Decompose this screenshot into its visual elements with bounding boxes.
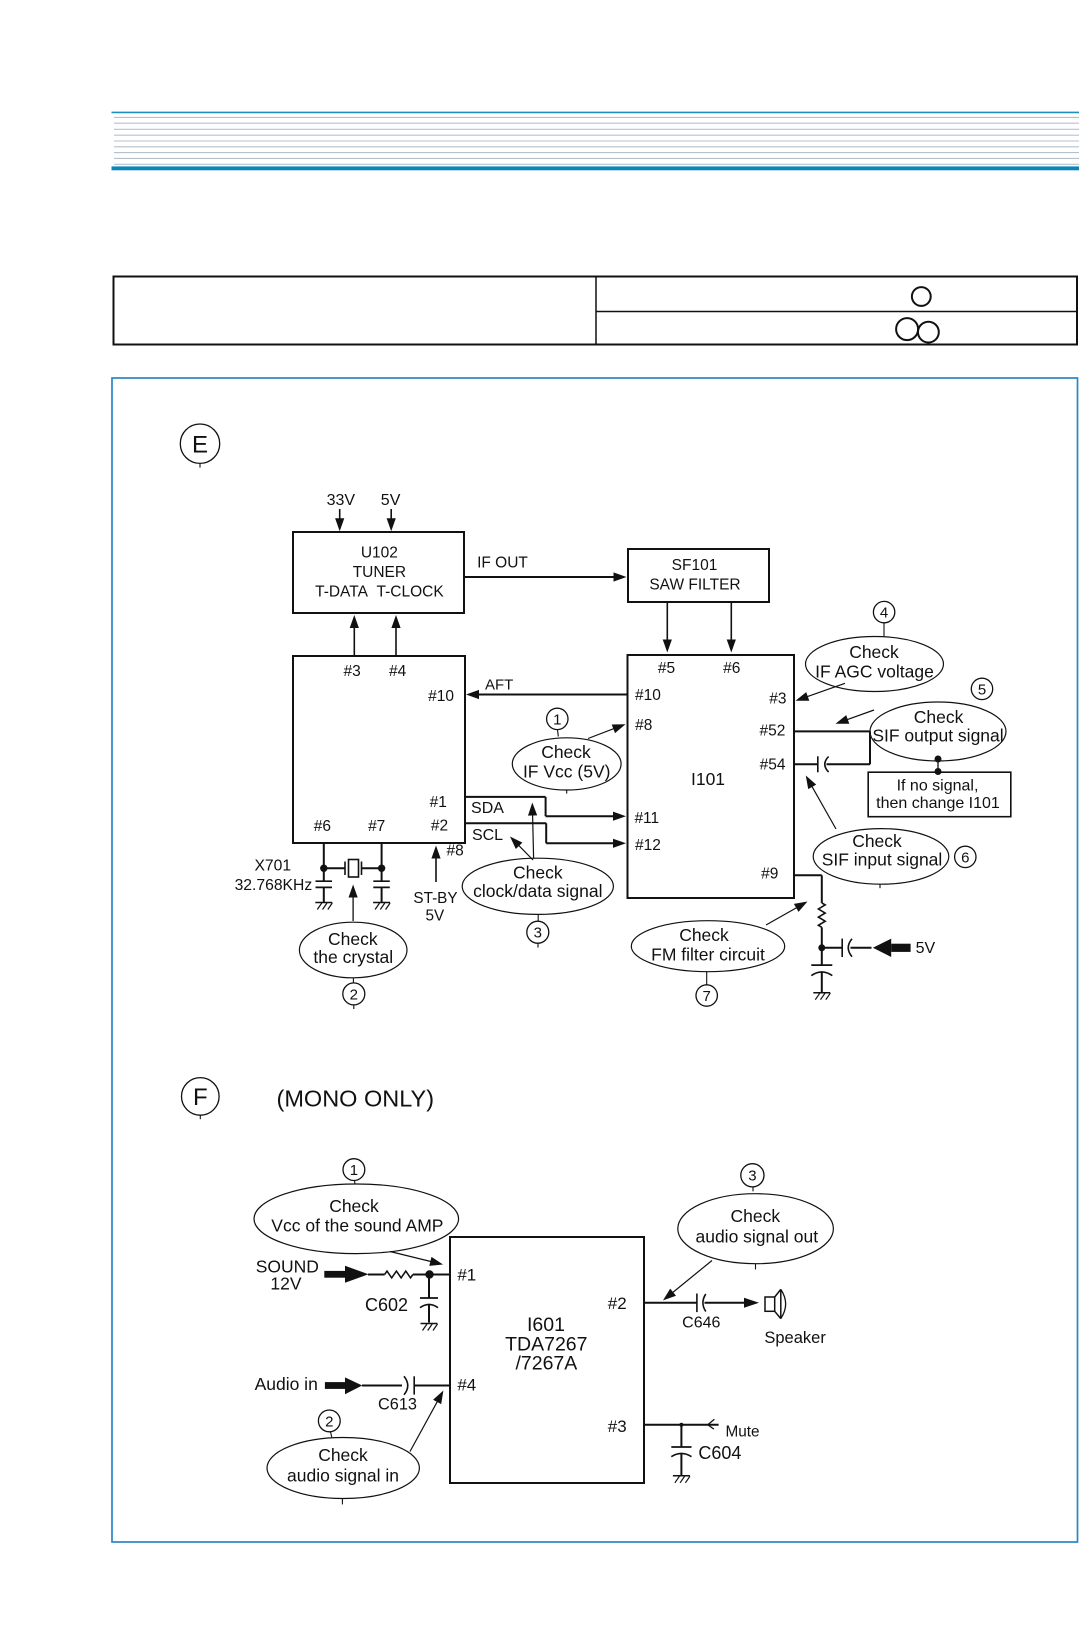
ellipse check IF AGC — [806, 637, 944, 692]
ellipse check IF Vcc — [512, 738, 621, 794]
pin #1 I601 — [457, 1265, 476, 1284]
pin #11 I101 — [634, 810, 659, 827]
callout 4 — [873, 601, 894, 622]
ellipse check FM filter — [631, 921, 784, 972]
wire pin2 to C646 — [644, 1302, 697, 1304]
pin #2 I601 — [608, 1294, 627, 1313]
pin #6 micom — [314, 818, 331, 835]
net label SDA — [471, 800, 504, 817]
node 5V tuner — [381, 492, 401, 509]
arrow to pin1 wire — [390, 1252, 443, 1266]
ellipse check SIF output — [870, 702, 1006, 761]
ellipse check audio signal in — [267, 1438, 419, 1505]
wire resistor to node — [821, 927, 823, 948]
svg-text:If no signal,: If no signal, — [897, 778, 979, 795]
callout 3F — [741, 1164, 764, 1187]
svg-text:#52: #52 — [759, 723, 785, 740]
net label SOUND 12V — [256, 1257, 319, 1294]
ellipse check SIF input — [813, 829, 949, 889]
label C613 — [378, 1396, 417, 1414]
signal arrow audio in — [325, 1377, 362, 1394]
label Speaker — [764, 1329, 826, 1347]
svg-text:IF OUT: IF OUT — [477, 555, 528, 572]
ground C604 — [673, 1476, 690, 1483]
junction dot right — [378, 865, 385, 872]
ground FM filter — [813, 993, 830, 1000]
svg-text:SDA: SDA — [471, 800, 504, 817]
junction dot C602 — [425, 1270, 433, 1278]
speaker — [765, 1289, 786, 1318]
capacitor to ground — [811, 948, 832, 993]
leader callout3 — [537, 915, 539, 922]
pin #54 I101 — [760, 757, 786, 774]
note box if no signal — [868, 772, 1011, 817]
svg-text:Check: Check — [730, 1206, 780, 1226]
net label ST-BY 5V — [413, 890, 457, 924]
capacitor left of crystal — [316, 868, 333, 902]
callout 3 — [527, 921, 549, 943]
svg-text:the crystal: the crystal — [313, 947, 393, 967]
wire pin3 mute — [644, 1424, 719, 1426]
pin #7 micom — [368, 818, 385, 835]
pin #12 I101 — [635, 837, 661, 854]
capacitor to 5V — [824, 939, 872, 957]
svg-text:Check: Check — [318, 1445, 368, 1465]
svg-text:AFT: AFT — [485, 677, 513, 694]
node 33V — [327, 492, 356, 509]
pin #2 micom — [431, 818, 448, 835]
leader callout3F — [752, 1187, 754, 1191]
wire 33V supply arrow — [335, 509, 344, 531]
resistor FM filter — [818, 903, 825, 927]
net label Audio in — [255, 1374, 318, 1394]
label 32.768KHz — [235, 877, 313, 894]
wire SCL — [465, 823, 626, 848]
svg-text:Check: Check — [914, 707, 964, 727]
pin #8 I101 — [635, 717, 652, 734]
junction dot left — [320, 865, 327, 872]
tuner U102 — [293, 532, 464, 613]
svg-text:5: 5 — [978, 681, 986, 698]
arrow to pin3 I101 — [796, 683, 846, 701]
capacitor C646 — [697, 1294, 706, 1313]
svg-text:TUNER: TUNER — [353, 564, 406, 581]
net label 5V — [916, 940, 936, 957]
pin #6 I101 — [723, 660, 740, 677]
svg-text:C646: C646 — [682, 1314, 720, 1331]
arrow to SDA wire — [528, 803, 537, 859]
label C604 — [698, 1443, 741, 1463]
IC I101 — [628, 655, 795, 898]
svg-text:(MONO ONLY): (MONO ONLY) — [277, 1086, 435, 1112]
svg-text:#4: #4 — [389, 663, 407, 680]
ground C602 — [421, 1324, 438, 1331]
svg-text:#1: #1 — [430, 794, 447, 811]
wire pin9 — [794, 875, 822, 903]
ellipse check the crystal — [299, 922, 407, 978]
capacitor on pin54 — [818, 756, 870, 772]
svg-text:#7: #7 — [368, 818, 385, 835]
svg-text:audio signal in: audio signal in — [287, 1466, 399, 1486]
svg-text:#2: #2 — [431, 818, 448, 835]
arrow to pin2 wire — [663, 1261, 712, 1301]
wire micom pin6 to crystal — [323, 843, 325, 868]
power 5V arrow — [873, 939, 911, 957]
wire C646 to speaker — [705, 1298, 760, 1308]
arrow to pin8 I101 — [588, 724, 626, 738]
pin #3 I101 — [769, 691, 786, 708]
svg-text:/7267A: /7267A — [515, 1353, 577, 1375]
svg-text:SCL: SCL — [472, 827, 503, 844]
svg-text:Check: Check — [541, 742, 591, 762]
micom box — [293, 656, 465, 843]
svg-text:3: 3 — [534, 925, 542, 942]
ellipse check clock/data — [462, 858, 613, 914]
svg-text:5V: 5V — [916, 940, 936, 957]
svg-text:#9: #9 — [761, 866, 778, 883]
section label E — [180, 424, 219, 468]
pin #3 I601 — [608, 1417, 627, 1436]
svg-text:#10: #10 — [428, 688, 454, 705]
section label F — [182, 1078, 220, 1120]
wire AFT — [466, 690, 628, 699]
leader callout7 — [706, 972, 708, 985]
svg-text:2: 2 — [325, 1413, 333, 1430]
tick below callout2F — [331, 1432, 332, 1438]
callout 2 — [343, 983, 365, 1005]
wire micom #4 to tuner — [391, 615, 400, 656]
ellipse check audio signal out — [678, 1194, 834, 1270]
svg-text:2: 2 — [350, 986, 358, 1003]
svg-text:SAW FILTER: SAW FILTER — [649, 577, 740, 594]
svg-text:ST-BY: ST-BY — [413, 890, 457, 907]
label C646 — [682, 1314, 720, 1331]
capacitor C613 — [404, 1376, 450, 1395]
wire SDA — [465, 797, 626, 821]
svg-text:#6: #6 — [314, 818, 331, 835]
svg-text:#11: #11 — [634, 810, 659, 827]
svg-text:#3: #3 — [769, 691, 786, 708]
pin #52 I101 — [759, 723, 785, 740]
svg-text:Check: Check — [852, 831, 902, 851]
svg-text:FM filter circuit: FM filter circuit — [651, 945, 765, 965]
power arrow SOUND 12V — [324, 1266, 368, 1283]
ground right — [373, 903, 390, 910]
svg-text:Check: Check — [329, 1196, 379, 1216]
wire 5V supply arrow — [387, 509, 396, 531]
svg-text:F: F — [193, 1084, 208, 1111]
resistor sound vcc — [385, 1271, 413, 1278]
svg-text:SIF output signal: SIF output signal — [872, 726, 1003, 746]
svg-text:I101: I101 — [691, 769, 725, 789]
pin #8 micom — [446, 843, 463, 860]
svg-text:Check: Check — [679, 925, 729, 945]
arrow to pin4 wire — [410, 1391, 443, 1452]
callout 1F — [343, 1159, 365, 1181]
wire pin52 — [794, 731, 870, 764]
svg-text:6: 6 — [961, 849, 969, 866]
svg-text:audio signal out: audio signal out — [695, 1227, 818, 1247]
svg-text:1: 1 — [350, 1162, 358, 1179]
wire micom #3 to tuner — [350, 615, 359, 656]
svg-text:3: 3 — [748, 1168, 756, 1185]
crystal X701 — [324, 860, 382, 878]
label C602 — [365, 1295, 408, 1315]
IC I601 — [450, 1237, 644, 1483]
capacitor C604 — [671, 1425, 691, 1476]
pin #3 micom — [343, 663, 360, 680]
svg-text:T-DATA T-CLOCK: T-DATA T-CLOCK — [315, 584, 444, 601]
svg-text:Speaker: Speaker — [764, 1329, 826, 1347]
wire IF OUT — [464, 572, 627, 581]
svg-text:Vcc of the sound AMP: Vcc of the sound AMP — [271, 1216, 443, 1236]
svg-text:clock/data signal: clock/data signal — [473, 881, 602, 901]
svg-text:5V: 5V — [381, 492, 401, 509]
svg-text:SF101: SF101 — [672, 557, 718, 574]
callout 2F — [318, 1410, 340, 1432]
net label IF OUT — [477, 555, 528, 572]
svg-text:then change I101: then change I101 — [876, 795, 1000, 812]
svg-text:#8: #8 — [446, 843, 463, 860]
net label AFT — [485, 677, 513, 694]
node junction dot — [818, 944, 825, 951]
svg-text:Audio in: Audio in — [255, 1374, 318, 1394]
net label Mute — [725, 1424, 759, 1441]
leader callout1F — [354, 1181, 357, 1184]
svg-text:1: 1 — [553, 711, 561, 728]
svg-text:#3: #3 — [608, 1417, 627, 1436]
svg-text:#3: #3 — [343, 663, 360, 680]
junction dots to note box — [935, 756, 942, 776]
arrow to pin54 cap — [806, 776, 836, 830]
leader tick callout1 — [557, 730, 560, 737]
net label SCL — [472, 827, 503, 844]
svg-text:IF Vcc (5V): IF Vcc (5V) — [523, 762, 611, 782]
title MONO ONLY — [277, 1086, 435, 1112]
callout 7 — [696, 985, 717, 1006]
wire micom pin7 to crystal — [381, 843, 383, 868]
capacitor C602 — [420, 1275, 438, 1323]
callout 5 — [971, 678, 992, 699]
pin #1 micom — [430, 794, 447, 811]
callout 1 check IF Vcc — [547, 708, 568, 729]
wire ST-BY arrow to pin8 — [431, 846, 440, 883]
svg-text:#2: #2 — [608, 1294, 627, 1313]
svg-text:C604: C604 — [698, 1443, 741, 1463]
pin #10 I101 — [635, 687, 661, 704]
capacitor right of crystal — [373, 868, 390, 902]
svg-text:4: 4 — [880, 605, 888, 622]
tick below callout3 — [537, 943, 539, 947]
svg-text:7: 7 — [703, 988, 711, 1005]
arrow to pin9 wire — [766, 902, 808, 926]
svg-text:#4: #4 — [457, 1376, 476, 1395]
wire SF101 to I101 pin6 — [727, 602, 736, 653]
svg-text:#1: #1 — [457, 1265, 476, 1284]
svg-text:C602: C602 — [365, 1295, 408, 1315]
pin #10 micom — [428, 688, 454, 705]
svg-text:#6: #6 — [723, 660, 740, 677]
svg-text:#5: #5 — [658, 660, 675, 677]
label X701 — [254, 858, 291, 875]
svg-text:Check: Check — [328, 929, 378, 949]
wire resistor to pin1 — [413, 1274, 450, 1276]
svg-text:#54: #54 — [760, 757, 786, 774]
svg-text:32.768KHz: 32.768KHz — [235, 877, 313, 894]
svg-text:E: E — [192, 431, 208, 458]
tick below callout2 — [353, 1005, 355, 1009]
ground left — [315, 903, 332, 910]
wire pin54 — [794, 763, 818, 765]
svg-text:33V: 33V — [327, 492, 356, 509]
svg-text:#10: #10 — [635, 687, 661, 704]
arrow to SCL label — [510, 837, 533, 861]
svg-text:Check: Check — [849, 642, 899, 662]
svg-text:5V: 5V — [425, 907, 445, 924]
wire SF101 to I101 pin5 — [663, 602, 672, 653]
open arrow mute — [708, 1419, 715, 1429]
callout 6 — [955, 846, 976, 867]
pin #4 I601 — [457, 1376, 476, 1395]
pin #5 I101 — [658, 660, 675, 677]
svg-text:#8: #8 — [635, 717, 652, 734]
pin #9 I101 — [761, 866, 778, 883]
leader callout2 — [352, 978, 354, 983]
arrow check crystal — [349, 885, 358, 922]
pin #4 micom — [389, 663, 407, 680]
junction dot mute — [679, 1423, 683, 1427]
svg-text:C613: C613 — [378, 1396, 417, 1414]
svg-text:IF AGC voltage: IF AGC voltage — [815, 662, 934, 682]
svg-text:12V: 12V — [270, 1274, 301, 1294]
svg-text:U102: U102 — [361, 545, 398, 562]
ellipse check Vcc sound AMP — [254, 1184, 459, 1254]
svg-text:X701: X701 — [254, 858, 291, 875]
wire to resistor — [368, 1274, 385, 1276]
arrow to pin52 wire — [836, 710, 875, 724]
svg-text:#12: #12 — [635, 837, 661, 854]
svg-text:Mute: Mute — [725, 1424, 759, 1441]
leader tick callout4 — [883, 623, 885, 636]
saw filter SF101 — [628, 549, 769, 602]
wire to C613 — [362, 1385, 402, 1387]
svg-text:SIF input signal: SIF input signal — [822, 850, 943, 870]
svg-text:Check: Check — [513, 863, 563, 883]
